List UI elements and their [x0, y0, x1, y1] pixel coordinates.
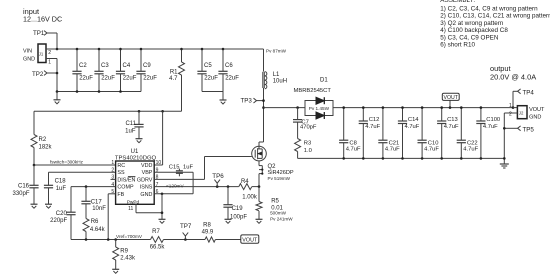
- capacitor C13 4.7uF: [441, 108, 443, 121]
- svg-text:R2: R2: [39, 137, 47, 143]
- svg-text:FB: FB: [117, 192, 124, 198]
- svg-text:R7: R7: [152, 229, 160, 235]
- svg-text:C3: C3: [101, 63, 109, 69]
- Q2 source pins: [258, 161, 260, 166]
- test point TP4: [512, 91, 514, 107]
- connector J1: [38, 44, 46, 63]
- svg-text:VOUT: VOUT: [242, 237, 258, 243]
- svg-text:Vref=700mV: Vref=700mV: [116, 234, 143, 239]
- svg-text:5) C3, C4, C9 OPEN: 5) C3, C4, C9 OPEN: [440, 34, 499, 41]
- ground (R9): [112, 268, 119, 270]
- svg-text:TP7: TP7: [180, 223, 192, 230]
- capacitor C2 22uF: [76, 49, 78, 71]
- svg-text:R8: R8: [203, 223, 211, 229]
- wire RC net: [34, 164, 116, 166]
- capacitor C17 10nF: [85, 187, 87, 202]
- svg-text:22uF: 22uF: [204, 76, 218, 82]
- svg-text:330pF: 330pF: [12, 191, 29, 197]
- wire switch node: [263, 88, 265, 142]
- svg-text:4.7uF: 4.7uF: [365, 124, 380, 130]
- svg-text:<120mV: <120mV: [166, 183, 184, 188]
- svg-text:4.7uF: 4.7uF: [463, 146, 478, 152]
- ground (C18): [45, 203, 52, 205]
- svg-text:C20: C20: [56, 211, 68, 217]
- capacitor C15 1uF: [178, 169, 180, 171]
- svg-text:4) C100 backpacked C8: 4) C100 backpacked C8: [440, 27, 508, 34]
- capacitor C100 4.7uF: [480, 108, 482, 121]
- svg-text:TP3: TP3: [241, 98, 253, 105]
- junction output gnd: [503, 157, 506, 160]
- resistor R7 66.5k: [151, 237, 164, 243]
- svg-text:10nF: 10nF: [92, 206, 106, 212]
- svg-text:2.43k: 2.43k: [120, 256, 136, 262]
- junction switch/D1: [262, 106, 265, 109]
- capacitor C9 22uF: [140, 49, 142, 71]
- svg-text:2: 2: [48, 50, 51, 56]
- svg-text:R4: R4: [241, 179, 249, 185]
- svg-text:1.00k: 1.00k: [242, 194, 258, 200]
- capacitor C10 4.7uF: [421, 108, 423, 141]
- svg-text:TP1: TP1: [33, 30, 45, 37]
- svg-text:C14: C14: [408, 117, 419, 123]
- svg-text:1: 1: [48, 60, 51, 66]
- svg-text:VIN: VIN: [23, 48, 32, 54]
- svg-text:4.7uF: 4.7uF: [483, 124, 498, 130]
- svg-text:C17: C17: [91, 199, 103, 205]
- U1 pin3 stub: [111, 178, 116, 180]
- svg-text:20.0V @ 4.0A: 20.0V @ 4.0A: [490, 73, 536, 82]
- svg-text:12...16V DC: 12...16V DC: [23, 15, 62, 24]
- svg-text:22uF: 22uF: [79, 76, 93, 82]
- capacitor C3 22uF: [98, 49, 100, 71]
- capacitor C12 4.7uF: [362, 108, 364, 121]
- svg-text:Pv 241mW: Pv 241mW: [270, 217, 293, 222]
- svg-text:C19: C19: [232, 206, 244, 212]
- svg-text:RC: RC: [117, 163, 125, 169]
- capacitor C8 4.7uF: [343, 108, 345, 141]
- ground (U1): [159, 218, 166, 220]
- op-amp U1 TPS40210DGQ box: [116, 161, 155, 204]
- svg-text:TP2: TP2: [32, 71, 44, 78]
- svg-text:4.7uF: 4.7uF: [424, 146, 439, 152]
- svg-text:Pv 1.45W: Pv 1.45W: [309, 106, 330, 111]
- svg-text:2) C10, C13, C14, C21 at wrong: 2) C10, C13, C14, C21 at wrong pattern: [440, 13, 550, 20]
- svg-text:GND: GND: [140, 192, 152, 198]
- wire VBP net: [154, 171, 193, 173]
- resistor R4 1.00k: [239, 184, 252, 190]
- svg-text:R1: R1: [170, 70, 178, 76]
- svg-text:C100: C100: [486, 117, 500, 123]
- inductor L1 10uH: [263, 49, 265, 72]
- capacitor C16 330pF: [33, 165, 35, 185]
- resistor R6 4.64k: [83, 219, 89, 232]
- svg-text:COMP: COMP: [117, 185, 134, 191]
- svg-text:C6: C6: [225, 63, 233, 69]
- svg-text:D1: D1: [320, 77, 328, 83]
- svg-text:R6: R6: [91, 219, 99, 225]
- svg-text:J1: J1: [39, 52, 44, 57]
- svg-text:TPS40210DGQ: TPS40210DGQ: [115, 156, 157, 162]
- J2 pin 1: [513, 107, 517, 109]
- svg-text:4.7: 4.7: [169, 76, 178, 82]
- svg-text:4.7uF: 4.7uF: [346, 146, 361, 152]
- svg-text:U1: U1: [131, 149, 139, 155]
- capacitor C6 22uF: [222, 49, 224, 71]
- test point TP7: [183, 233, 189, 240]
- J1 pin 2: [46, 48, 57, 50]
- svg-text:1: 1: [111, 160, 114, 166]
- svg-text:22uF: 22uF: [123, 76, 137, 82]
- resistor R5 0.01: [258, 187, 260, 202]
- wire to VOUT flag: [215, 239, 240, 241]
- svg-text:GND: GND: [23, 56, 35, 62]
- svg-text:GND: GND: [529, 115, 541, 121]
- svg-text:C13: C13: [447, 117, 458, 123]
- svg-text:PwPd: PwPd: [127, 199, 140, 204]
- wire FB bus 2: [164, 239, 206, 241]
- svg-text:4.7uF: 4.7uF: [444, 124, 459, 130]
- ground (C11): [136, 138, 143, 140]
- svg-text:MBRB2545CT: MBRB2545CT: [294, 88, 332, 94]
- capacitor C22 4.7uF: [460, 108, 462, 141]
- diode D1 MBRB2545CT: [305, 101, 333, 116]
- capacitor C5 22uF: [201, 49, 203, 71]
- svg-text:C12: C12: [369, 117, 380, 123]
- svg-text:1: 1: [509, 103, 512, 109]
- J1 pin 1: [46, 58, 57, 60]
- svg-text:C15: C15: [169, 165, 180, 171]
- svg-text:TP6: TP6: [212, 173, 224, 180]
- svg-text:VDD: VDD: [141, 163, 152, 169]
- resistor R3 1.0: [297, 122, 299, 138]
- test point TP6: [214, 180, 220, 187]
- wire output gnd bus: [298, 157, 505, 159]
- svg-text:10uH: 10uH: [273, 79, 287, 85]
- ground (input bus): [56, 92, 58, 100]
- capacitor C11 1uF: [138, 111, 140, 124]
- svg-text:4.7uF: 4.7uF: [405, 124, 420, 130]
- wire input gnd bus: [57, 91, 141, 93]
- svg-text:C5: C5: [204, 63, 212, 69]
- svg-text:fswitch=300kHz: fswitch=300kHz: [50, 159, 84, 164]
- resistor R9 2.43k: [115, 240, 117, 248]
- svg-text:VBP: VBP: [142, 170, 153, 176]
- wire D1 anode: [264, 107, 306, 109]
- wire FB bus: [71, 239, 151, 241]
- svg-text:1) C2, C3, C4, C9 at wrong pat: 1) C2, C3, C4, C9 at wrong pattern: [440, 5, 538, 12]
- wire GND pin net: [154, 193, 193, 195]
- svg-text:2: 2: [509, 111, 512, 117]
- wire ISNS net: [154, 186, 239, 188]
- svg-text:500mW: 500mW: [270, 211, 286, 216]
- resistor R2 182k: [33, 111, 35, 134]
- ground (output): [500, 163, 509, 165]
- svg-text:C2: C2: [79, 63, 87, 69]
- junction TP1-rail: [56, 48, 59, 51]
- svg-text:Pv 519mW: Pv 519mW: [268, 176, 291, 181]
- svg-text:3) Q2 at wrong pattern: 3) Q2 at wrong pattern: [440, 20, 504, 27]
- wire VDD net: [34, 110, 182, 112]
- svg-text:R9: R9: [120, 248, 128, 254]
- wire COMP net: [71, 186, 116, 188]
- svg-text:R3: R3: [304, 140, 311, 146]
- svg-text:VOUT: VOUT: [529, 107, 545, 113]
- capacitor C20 220pF: [70, 187, 72, 213]
- svg-text:C11: C11: [125, 121, 136, 127]
- svg-text:100pF: 100pF: [230, 214, 247, 220]
- svg-text:TP4: TP4: [523, 90, 535, 97]
- ground (R5): [256, 218, 263, 220]
- svg-text:470pF: 470pF: [300, 125, 317, 131]
- svg-text:1uF: 1uF: [125, 128, 136, 134]
- svg-text:VOUT: VOUT: [443, 95, 458, 101]
- capacitor C21 4.7uF: [382, 108, 384, 141]
- svg-text:22uF: 22uF: [143, 76, 157, 82]
- transistor Q2 SiR426DP: [252, 146, 267, 161]
- junction snubber: [296, 106, 299, 109]
- wire VIN rail: [46, 48, 264, 50]
- svg-text:220pF: 220pF: [50, 218, 67, 224]
- svg-text:10: 10: [156, 160, 162, 166]
- svg-text:182k: 182k: [39, 145, 53, 151]
- wire SS net: [49, 171, 116, 173]
- svg-text:66.5k: 66.5k: [150, 245, 166, 251]
- wire FB pin: [108, 193, 115, 195]
- svg-text:C18: C18: [55, 178, 67, 184]
- svg-text:C9: C9: [143, 63, 151, 69]
- wire VDD riser: [162, 111, 164, 165]
- svg-text:Q2: Q2: [268, 164, 277, 170]
- svg-text:ISNS: ISNS: [140, 185, 153, 191]
- capacitor C4 22uF: [120, 49, 122, 71]
- svg-text:DIS/EN: DIS/EN: [117, 177, 135, 183]
- J2 pin 2: [504, 112, 517, 114]
- svg-text:1uF: 1uF: [183, 165, 193, 171]
- capacitor C19 100pF: [227, 187, 229, 205]
- wire C5/C6 bus: [202, 91, 223, 93]
- svg-text:C4: C4: [123, 63, 131, 69]
- svg-text:Pv 87mW: Pv 87mW: [266, 48, 287, 53]
- wire GDRV net: [154, 178, 204, 180]
- svg-text:1uF: 1uF: [56, 186, 67, 192]
- ground (C16): [31, 203, 38, 205]
- svg-text:TP5: TP5: [523, 127, 535, 134]
- svg-text:11: 11: [128, 206, 133, 212]
- test point TP5: [504, 127, 517, 129]
- svg-text:49.9: 49.9: [202, 229, 214, 235]
- capacitor C14 4.7uF: [402, 108, 404, 121]
- ground (C19): [225, 218, 232, 220]
- svg-text:2: 2: [111, 167, 114, 173]
- wire output rail: [333, 107, 513, 109]
- resistor R1 4.7: [181, 49, 183, 62]
- svg-text:ASSEMBLY:: ASSEMBLY:: [440, 0, 475, 4]
- svg-text:output: output: [490, 64, 511, 73]
- capacitor C7 470pF: [297, 108, 299, 120]
- svg-text:4.7uF: 4.7uF: [385, 146, 400, 152]
- svg-text:GDRV: GDRV: [137, 177, 153, 183]
- svg-text:1.0: 1.0: [304, 148, 312, 154]
- label VOUT (fb flag): [241, 235, 259, 243]
- label VOUT (net flag): [449, 100, 451, 107]
- svg-text:J2: J2: [519, 111, 524, 116]
- svg-text:22uF: 22uF: [225, 76, 239, 82]
- svg-text:22uF: 22uF: [101, 76, 115, 82]
- svg-text:SS: SS: [117, 170, 125, 176]
- svg-text:4.64k: 4.64k: [90, 227, 106, 233]
- resistor R8 49.9: [205, 237, 215, 242]
- svg-text:L1: L1: [273, 72, 280, 78]
- capacitor C18 1uF: [48, 172, 50, 185]
- ground (C5/C6): [222, 92, 224, 101]
- svg-text:R5: R5: [271, 198, 279, 204]
- svg-text:6) short R10: 6) short R10: [440, 42, 475, 49]
- wire GDRV gate: [205, 156, 252, 158]
- svg-text:C16: C16: [18, 184, 30, 190]
- connector J2: [517, 106, 527, 119]
